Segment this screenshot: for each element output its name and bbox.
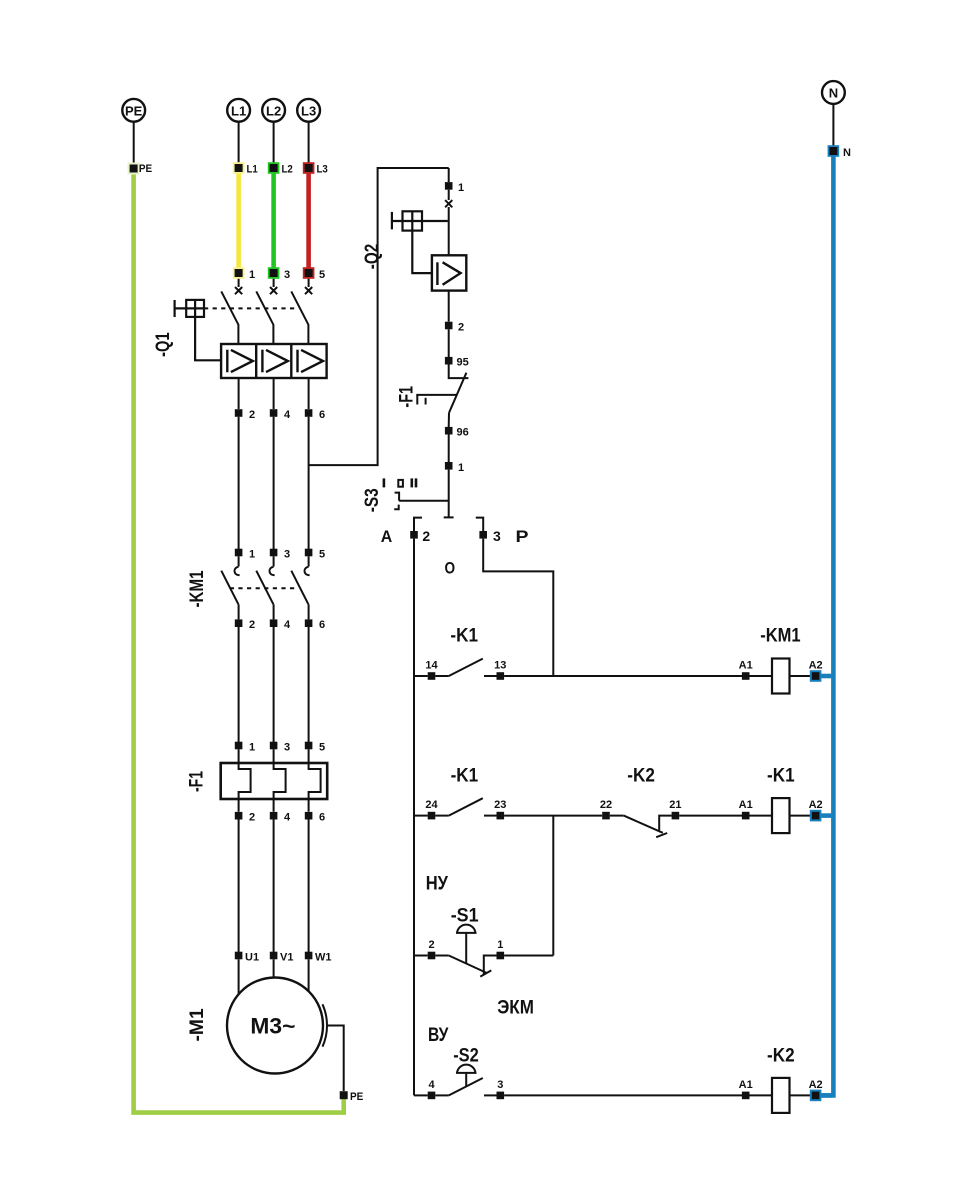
svg-text:Р: Р <box>516 527 529 546</box>
svg-text:-M1: -M1 <box>187 1008 208 1042</box>
wire rung2 left <box>414 815 428 817</box>
wire L1 terminal to contact <box>238 279 240 287</box>
svg-text:-K2: -K2 <box>627 766 655 787</box>
svg-text:-K2: -K2 <box>767 1045 795 1066</box>
svg-text:5: 5 <box>319 742 325 754</box>
svg-text:-S1: -S1 <box>451 905 479 926</box>
wire coil K1 to A2 <box>790 815 812 817</box>
wire Q2 out <box>448 291 450 322</box>
wire motor PE lead <box>327 1026 344 1092</box>
terminal A2 of K2 coil <box>809 1079 823 1101</box>
terminal A2 of KM1 coil <box>809 660 823 682</box>
terminal A2 of K1 coil <box>809 799 823 821</box>
wire S1 rung left <box>414 955 428 957</box>
svg-text:95: 95 <box>457 357 469 369</box>
terminal 23 of K1 <box>494 799 506 819</box>
svg-text:4: 4 <box>428 1079 435 1091</box>
svg-text:2: 2 <box>458 322 464 334</box>
terminal 22 of K2 <box>600 799 612 819</box>
terminal 14 of K1 <box>425 660 438 680</box>
breaker Q1 pole 1 blade <box>221 291 238 344</box>
svg-text:-F1: -F1 <box>187 771 208 792</box>
L1 source circle <box>227 99 250 122</box>
svg-text:L2: L2 <box>282 164 293 176</box>
wire P branch <box>483 539 553 676</box>
svg-text:ВУ: ВУ <box>428 1025 449 1046</box>
wire U1 to motor <box>238 959 240 994</box>
terminal 24 of K1 <box>425 799 438 819</box>
wire Q1 out pole 1 <box>238 378 240 409</box>
L3 source circle <box>297 99 320 122</box>
F1 thermal actuator link <box>416 395 457 405</box>
svg-text:A2: A2 <box>809 799 823 811</box>
svg-text:W1: W1 <box>315 952 332 964</box>
S3 position mark square <box>398 480 403 487</box>
contact K1 NO (rung2) <box>435 798 496 815</box>
wire rung2 middle <box>504 815 602 817</box>
wire PE circle lead <box>133 122 135 164</box>
breaker Q1 pole 1 fixed contact x <box>235 287 242 294</box>
svg-text:PE: PE <box>139 163 152 175</box>
terminal PE of motor <box>340 1091 364 1103</box>
wire KM1 to F1 pole 3 <box>308 627 310 742</box>
wire A2 to N rail (blue stub) rung K2 <box>816 1093 832 1098</box>
terminal 96 of F1 <box>445 427 469 439</box>
terminal 6 of F1 <box>305 812 325 824</box>
wire Q1 to KM1 pole 2 <box>273 417 275 549</box>
terminal 6 of Q1 <box>305 409 325 421</box>
svg-text:6: 6 <box>319 812 325 824</box>
wire Q2 top to terminal 1 <box>448 168 450 182</box>
svg-text:22: 22 <box>600 799 612 811</box>
svg-text:-Q1: -Q1 <box>153 332 174 357</box>
terminal A1 of K2 coil <box>739 1079 753 1099</box>
wire rung1 to coil <box>504 675 772 677</box>
terminal 2 of KM1 <box>235 619 255 631</box>
terminal 1 of S3 <box>445 462 464 474</box>
svg-text:1: 1 <box>249 269 255 281</box>
breaker Q1 operating mechanism box <box>175 300 204 317</box>
svg-text:N: N <box>829 86 838 101</box>
wire Q1 to KM1 pole 3 <box>308 417 310 549</box>
svg-text:3: 3 <box>284 742 290 754</box>
svg-text:А: А <box>381 527 393 546</box>
terminal 1 of S1 <box>497 939 505 959</box>
terminal 4 of S2 <box>428 1079 436 1099</box>
svg-text:A1: A1 <box>739 1079 753 1091</box>
svg-text:A1: A1 <box>739 660 753 672</box>
wire L2 circle lead <box>273 122 275 164</box>
svg-text:A1: A1 <box>739 799 753 811</box>
svg-text:1: 1 <box>497 939 503 951</box>
svg-text:2: 2 <box>249 812 255 824</box>
Q1 magnetic release symbol pole 3 <box>298 350 324 373</box>
svg-text:PE: PE <box>125 103 143 118</box>
contact S1 NC <box>435 956 496 977</box>
breaker Q2 fixed contact x <box>445 190 452 208</box>
terminal A1 of KM1 coil <box>739 660 753 680</box>
terminal W1 <box>305 952 332 964</box>
terminal 5 of KM1 <box>305 549 325 561</box>
selector switch S3 moving contact <box>444 470 454 518</box>
svg-text:-S2: -S2 <box>453 1045 479 1066</box>
wire 96 to S3 <box>448 435 450 463</box>
wire A2 to N rail (blue stub) rung2 <box>816 813 832 818</box>
N source circle <box>822 81 845 104</box>
Q1 magnetic release symbol pole 1 <box>227 350 253 373</box>
svg-text:ЭКМ: ЭКМ <box>497 997 534 1018</box>
Q2 magnetic release symbol <box>437 262 460 285</box>
breaker Q2 trip unit box <box>432 255 466 290</box>
terminal 1 of Q1 <box>233 267 255 281</box>
svg-text:НУ: НУ <box>426 873 448 894</box>
S3 fixed contact P side <box>476 518 483 531</box>
svg-text:6: 6 <box>319 619 325 631</box>
svg-text:-K1: -K1 <box>767 766 795 787</box>
svg-text:5: 5 <box>319 549 325 561</box>
contact K1 NO (rung1) <box>435 659 496 676</box>
linkage Q2 to trip unit <box>412 231 432 274</box>
svg-text:1: 1 <box>458 182 464 194</box>
S3 fixed contact A side <box>414 518 422 531</box>
F1 heater pole 1 <box>239 749 251 811</box>
PE source circle <box>122 99 145 122</box>
svg-text:2: 2 <box>428 939 434 951</box>
terminal 6 of KM1 <box>305 619 325 631</box>
wire phase L2 (green) <box>271 168 276 273</box>
svg-text:-F1: -F1 <box>397 386 418 408</box>
svg-text:3: 3 <box>284 269 290 281</box>
contact S2 NO <box>435 1078 496 1095</box>
terminal N <box>828 145 851 159</box>
motor M1 <box>227 978 323 1074</box>
overload relay F1 box <box>221 763 328 799</box>
svg-text:-KM1: -KM1 <box>187 570 208 607</box>
wire rung1 left <box>414 675 428 677</box>
contactor KM1 pole 2 contact <box>256 556 274 619</box>
svg-text:14: 14 <box>425 660 438 672</box>
svg-text:13: 13 <box>494 660 506 672</box>
terminal A1 of K1 coil <box>739 799 753 819</box>
wire phase L1 (yellow) <box>236 168 241 273</box>
F1 NC contact (95-96) <box>449 365 469 428</box>
terminal 4 of Q1 <box>270 409 291 421</box>
terminal 95 of F1 <box>445 357 469 369</box>
svg-text:5: 5 <box>319 269 325 281</box>
breaker Q1 pole 3 blade <box>291 291 308 344</box>
wire rung2 down junction <box>552 816 554 956</box>
svg-text:23: 23 <box>494 799 506 811</box>
svg-text:4: 4 <box>284 812 291 824</box>
wire F1 to motor V1 <box>273 820 275 953</box>
contact K2 NC (rung2) <box>610 816 672 838</box>
wire tap to Q2 branch <box>309 168 449 465</box>
L2 source circle <box>262 99 285 122</box>
svg-text:96: 96 <box>457 427 469 439</box>
terminal 5 of F1 <box>305 742 325 754</box>
terminal L2 <box>268 162 293 175</box>
wire W1 to motor <box>308 959 310 992</box>
svg-text:PE: PE <box>350 1091 363 1103</box>
wire phase L3 (red) <box>306 168 311 273</box>
F1 heater pole 2 <box>274 749 286 811</box>
svg-text:-Q2: -Q2 <box>362 244 383 269</box>
svg-text:L1: L1 <box>231 103 246 118</box>
coil K2 <box>772 1078 790 1113</box>
S1 actuator dome <box>457 925 476 964</box>
wire F1 to motor U1 <box>238 820 240 953</box>
svg-text:-S3: -S3 <box>362 488 383 512</box>
linkage Q1 dashed <box>204 307 299 309</box>
svg-text:-KM1: -KM1 <box>760 626 801 647</box>
svg-text:A2: A2 <box>809 660 823 672</box>
wire L3 circle lead <box>308 122 310 164</box>
wire S1 to junction <box>504 955 553 957</box>
terminal 2 of Q2 <box>445 322 464 334</box>
svg-text:L2: L2 <box>266 103 281 118</box>
wire F1 to motor W1 <box>308 820 310 953</box>
wire Q1 out pole 3 <box>308 378 310 409</box>
svg-text:3: 3 <box>284 549 290 561</box>
breaker Q1 pole 3 fixed contact x <box>305 287 312 294</box>
terminal 3 of S2 <box>497 1079 505 1099</box>
svg-text:-K1: -K1 <box>451 766 479 787</box>
svg-text:M3~: M3~ <box>250 1014 295 1039</box>
wire coil KM1 to A2 <box>790 675 812 677</box>
terminal L3 <box>303 162 328 175</box>
svg-text:N: N <box>843 147 851 159</box>
wire PE green rail <box>134 168 344 1113</box>
svg-text:24: 24 <box>425 799 438 811</box>
terminal 1 of Q2 <box>445 182 464 194</box>
svg-text:1: 1 <box>458 462 464 474</box>
terminal 3 of KM1 <box>270 549 290 561</box>
wire Q2 to F1 95 <box>448 329 450 357</box>
svg-text:2: 2 <box>249 409 255 421</box>
terminal L1 <box>233 162 258 175</box>
svg-text:L3: L3 <box>301 103 316 118</box>
S3 position mark II <box>412 478 416 487</box>
svg-text:A2: A2 <box>809 1079 823 1091</box>
svg-text:О: О <box>445 559 456 578</box>
svg-text:U1: U1 <box>245 952 259 964</box>
wire Q1 out pole 2 <box>273 378 275 409</box>
breaker Q2 operating mechanism box <box>392 211 448 230</box>
terminal 3 of Q1 <box>268 267 290 281</box>
wire rung S2 to coil <box>504 1094 772 1096</box>
terminal 21 of K2 <box>669 799 681 819</box>
F1 heater pole 3 <box>309 749 321 811</box>
terminal 2 of S3 <box>410 528 430 544</box>
wire L3 terminal to contact <box>308 279 310 287</box>
svg-text:3: 3 <box>493 528 501 544</box>
contactor KM1 pole 3 contact <box>291 556 309 619</box>
svg-text:4: 4 <box>284 409 291 421</box>
svg-text:V1: V1 <box>280 952 293 964</box>
svg-text:4: 4 <box>284 619 291 631</box>
wire KM1 to F1 pole 2 <box>273 627 275 742</box>
terminal 2 of S1 <box>428 939 436 959</box>
linkage KM1 dashed <box>230 587 298 589</box>
wire L2 terminal to contact <box>273 279 275 287</box>
wire L1 circle lead <box>238 122 240 164</box>
wire N circle lead <box>832 105 834 148</box>
svg-text:2: 2 <box>422 528 430 544</box>
wire rung2 to coil <box>679 815 772 817</box>
svg-text:-K1: -K1 <box>450 626 478 647</box>
wire KM1 to F1 pole 1 <box>238 627 240 742</box>
Q1 magnetic release symbol pole 2 <box>262 350 288 373</box>
wire Q1 to KM1 pole 1 <box>238 417 240 549</box>
svg-text:21: 21 <box>669 799 681 811</box>
terminal 3 of S3 <box>479 528 501 544</box>
coil K1 <box>772 798 790 833</box>
terminal 13 of K1 <box>494 660 506 680</box>
contactor KM1 pole 1 contact <box>221 556 239 619</box>
wire V1 to motor <box>273 959 275 978</box>
svg-text:3: 3 <box>497 1079 503 1091</box>
terminal 3 of F1 <box>270 742 290 754</box>
svg-text:1: 1 <box>249 549 255 561</box>
wire N rail (blue) <box>820 152 834 1095</box>
breaker Q1 trip unit box <box>221 344 327 378</box>
breaker Q1 pole 2 fixed contact x <box>270 287 277 294</box>
wire left control rail <box>413 539 415 1096</box>
svg-text:6: 6 <box>319 409 325 421</box>
svg-text:L3: L3 <box>317 164 328 176</box>
S3 position mark I <box>383 478 386 487</box>
linkage Q1 to trip unit <box>195 317 221 360</box>
breaker Q1 pole 2 blade <box>256 291 273 344</box>
wire A2 to N rail (blue stub) rung1 <box>816 674 832 679</box>
S2 actuator dome <box>457 1065 476 1087</box>
terminal V1 <box>270 952 294 964</box>
terminal 1 of KM1 <box>235 549 255 561</box>
terminal 2 of Q1 <box>235 409 255 421</box>
coil KM1 <box>772 659 790 694</box>
terminal 5 of Q1 <box>303 267 325 281</box>
terminal 4 of KM1 <box>270 619 291 631</box>
svg-text:1: 1 <box>249 742 255 754</box>
terminal 4 of F1 <box>270 812 291 824</box>
motor PE terminal arc <box>323 1004 328 1046</box>
wire coil K2 to A2 <box>790 1094 812 1096</box>
terminal PE <box>128 163 153 175</box>
terminal U1 <box>235 952 259 964</box>
wire S2 rung left <box>414 1094 428 1096</box>
selector switch S3 operating bar <box>394 493 449 510</box>
breaker Q2 blade <box>448 207 450 255</box>
terminal 2 of F1 <box>235 812 255 824</box>
svg-text:L1: L1 <box>247 164 258 176</box>
terminal 1 of F1 <box>235 742 255 754</box>
svg-text:2: 2 <box>249 619 255 631</box>
